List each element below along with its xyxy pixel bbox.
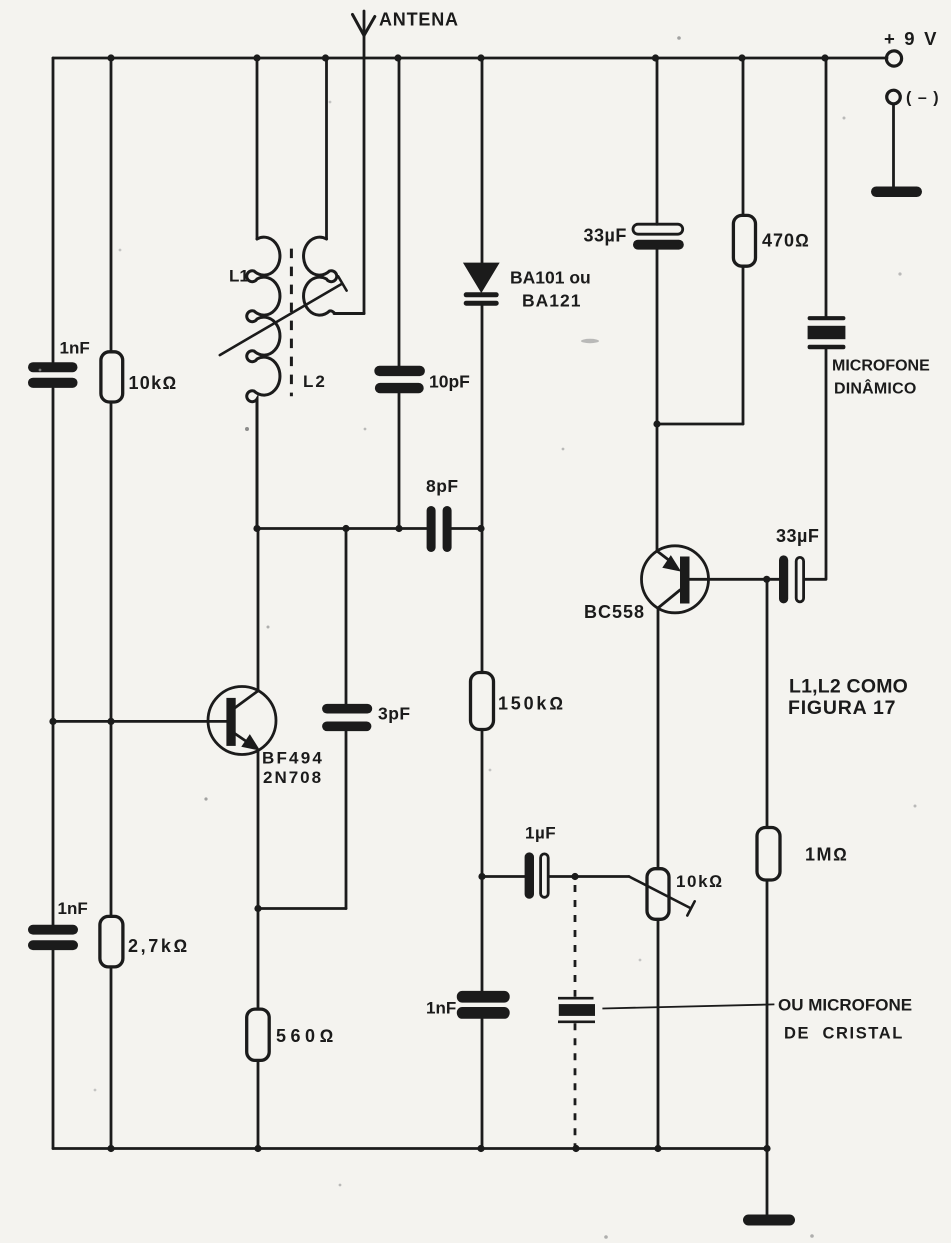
resistor R 560ohm xyxy=(247,1009,270,1060)
wire microphone branch x=826 xyxy=(805,58,827,579)
capacitor C 33uF electrolytic out xyxy=(779,555,804,603)
wire mid rail y=528.5 xyxy=(257,527,482,530)
wire (-) to ground xyxy=(892,104,895,189)
node bottom rail / crystal mic xyxy=(572,1145,579,1152)
antenna symbol xyxy=(353,15,375,36)
wire BF494 collector x=258 xyxy=(257,529,260,692)
wire 10pF branch x=399 xyxy=(398,58,401,529)
svg-text:BF494: BF494 xyxy=(262,749,324,768)
svg-text:1µF: 1µF xyxy=(525,824,556,843)
node bottom rail / pot xyxy=(654,1145,661,1152)
svg-text:+9V: +9V xyxy=(884,28,946,49)
wire second bus x=111 xyxy=(110,58,113,1149)
node top rail / varicap xyxy=(477,54,484,61)
wire 1M branch x=767 xyxy=(766,579,769,1148)
svg-text:OU MICROFONE: OU MICROFONE xyxy=(778,996,912,1015)
wire BC558 base lead y=579.3 xyxy=(690,578,780,581)
potentiometer R 10k xyxy=(629,869,695,920)
wire 470ohm branch x=743 xyxy=(742,58,745,424)
inductor L1 right coupling winding xyxy=(304,237,364,315)
svg-text:L2: L2 xyxy=(303,372,327,391)
capacitor C 10pF xyxy=(374,366,425,394)
capacitor C 1nF bottom-mid xyxy=(457,991,510,1019)
node bottom rail / 2.7k xyxy=(107,1145,114,1152)
svg-text:1nF: 1nF xyxy=(426,999,456,1018)
node emitter / 3pF y=908.5 xyxy=(254,905,261,912)
transistor Q2 BC558 xyxy=(642,546,709,613)
resistor R 150k xyxy=(471,673,494,730)
node mid rail / L2 xyxy=(253,525,260,532)
crystal microphone dashed leads xyxy=(574,885,577,1149)
node top rail / 470ohm xyxy=(738,54,745,61)
node bottom rail / ground xyxy=(763,1145,770,1152)
svg-text:L1,L2 COMO: L1,L2 COMO xyxy=(789,676,908,698)
svg-text:DINÂMICO: DINÂMICO xyxy=(834,379,916,398)
svg-text:1nF: 1nF xyxy=(60,339,90,358)
wire left bus x=53 xyxy=(52,58,55,1149)
node top rail / 10pF xyxy=(394,54,401,61)
svg-text:10kΩ: 10kΩ xyxy=(676,872,724,891)
svg-text:DE CRISTAL: DE CRISTAL xyxy=(784,1025,904,1043)
terminal (-) xyxy=(887,90,901,104)
svg-text:2,7kΩ: 2,7kΩ xyxy=(128,936,190,956)
node mid rail / varicap xyxy=(477,525,484,532)
capacitor C 33uF electrolytic top (plates) xyxy=(633,224,684,249)
node top rail / R1 xyxy=(107,54,114,61)
wire bottom ground rail y=1148.5 xyxy=(53,1147,767,1150)
svg-text:10pF: 10pF xyxy=(429,372,470,392)
wire 560ohm branch x=258 xyxy=(257,909,260,1149)
node base bus R1 y=721.4 xyxy=(107,718,114,725)
node AF / crystal mic y=876.5 xyxy=(571,873,578,880)
transistor Q1 BF494 xyxy=(208,687,276,755)
wire top +9V rail xyxy=(53,57,887,60)
wire emitter node y=908.5 xyxy=(258,907,346,910)
svg-text:1nF: 1nF xyxy=(58,899,88,918)
node top rail / L1 left xyxy=(253,54,260,61)
svg-text:8pF: 8pF xyxy=(426,476,459,496)
capacitor C 3pF xyxy=(322,704,372,731)
crystal microphone symbol xyxy=(558,998,595,1022)
svg-text:BA121: BA121 xyxy=(522,291,581,311)
wire 33uF branch x=657 xyxy=(656,58,659,551)
node base bus left y=721.4 xyxy=(49,718,56,725)
svg-text:MICROFONE: MICROFONE xyxy=(832,358,930,375)
resistor R 1M xyxy=(757,828,780,881)
ground bottom rail xyxy=(743,1215,795,1226)
microphone dynamic symbol xyxy=(808,316,846,349)
wire varicap/150k bus x=482 xyxy=(481,58,484,1149)
node mid rail / 10pF xyxy=(395,525,402,532)
capacitor C 1nF top-left xyxy=(28,362,78,388)
resistor R 470ohm xyxy=(733,215,755,266)
svg-text:33µF: 33µF xyxy=(776,526,819,546)
varicap diode BA101 xyxy=(464,264,499,306)
capacitor C 1uF electrolytic xyxy=(525,852,549,898)
svg-text:(–): (–) xyxy=(906,90,945,107)
wire ground drop x=767 xyxy=(766,1149,769,1216)
crystal mic pointer line xyxy=(602,1004,774,1008)
svg-text:33µF: 33µF xyxy=(584,226,627,246)
node top rail / L1 right xyxy=(322,54,329,61)
wire 3pF branch x=346 xyxy=(345,529,348,909)
node top rail / microphone xyxy=(821,54,828,61)
capacitor C 1nF bottom-left xyxy=(28,925,78,950)
svg-text:10kΩ: 10kΩ xyxy=(129,373,178,393)
node mid rail / 3pF xyxy=(342,525,349,532)
svg-text:BC558: BC558 xyxy=(584,602,645,622)
svg-text:ANTENA: ANTENA xyxy=(379,10,459,30)
svg-text:2N708: 2N708 xyxy=(263,768,323,787)
inductor L1 left winding xyxy=(247,237,280,528)
capacitor C 8pF series xyxy=(427,506,452,552)
node bottom rail / 1nF xyxy=(477,1145,484,1152)
wire emitter feed y=424 xyxy=(657,423,743,426)
terminal +9V xyxy=(886,51,901,66)
svg-text:560Ω: 560Ω xyxy=(276,1026,338,1046)
svg-text:FIGURA 17: FIGURA 17 xyxy=(788,697,896,719)
inductor tuning arrow xyxy=(220,276,347,355)
svg-text:L1: L1 xyxy=(229,267,249,286)
wire BF494 emitter x=258 xyxy=(257,751,260,909)
inductor core dashed xyxy=(290,249,293,397)
svg-text:470Ω: 470Ω xyxy=(762,231,810,251)
wire L1 right winding top lead x=326.5 xyxy=(325,58,328,239)
ground battery negative xyxy=(871,187,922,198)
node top rail / 33uF xyxy=(652,54,659,61)
wire L1 top lead x=257 xyxy=(256,58,259,239)
node BC558 base / 33uF out xyxy=(763,576,770,583)
wire BC558 collector to pot x=658 xyxy=(657,608,660,1149)
resistor R 2.7k xyxy=(100,916,123,967)
wire BF494 base lead y=721.4 xyxy=(53,720,226,723)
wire AF node y=876.5 xyxy=(482,875,629,878)
wire antenna lead x=364 xyxy=(334,11,364,314)
svg-text:BA101 ou: BA101 ou xyxy=(510,268,591,288)
node AF / 150k y=876.5 xyxy=(478,873,485,880)
resistor R 10k top-left xyxy=(101,352,123,402)
svg-text:1MΩ: 1MΩ xyxy=(805,845,848,865)
node emitter feed / 33uF xyxy=(653,420,660,427)
svg-text:150kΩ: 150kΩ xyxy=(498,694,566,714)
svg-text:3pF: 3pF xyxy=(378,704,411,724)
node bottom rail / 560ohm xyxy=(254,1145,261,1152)
